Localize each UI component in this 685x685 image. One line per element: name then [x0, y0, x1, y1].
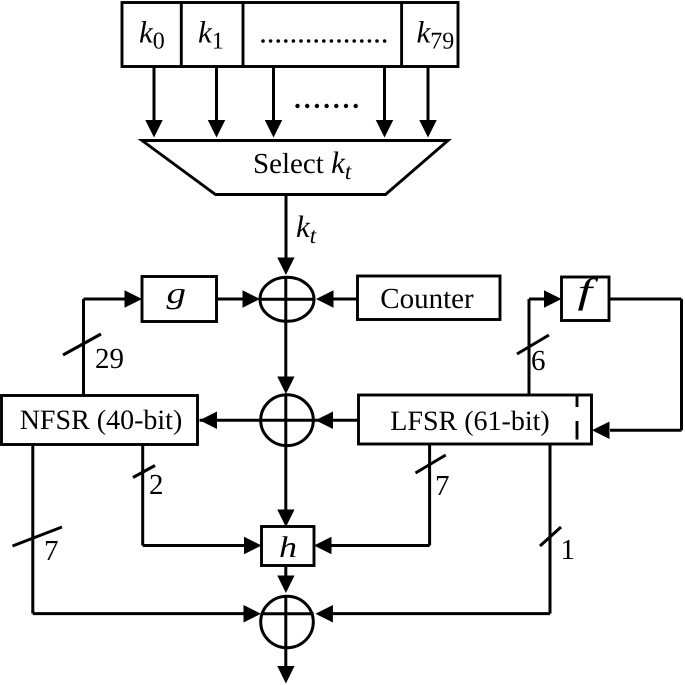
svg-text:2: 2: [149, 469, 164, 501]
svg-text:6: 6: [531, 345, 546, 377]
svg-text:7: 7: [435, 470, 450, 502]
svg-text:NFSR (40-bit): NFSR (40-bit): [20, 405, 183, 436]
svg-text:g: g: [167, 277, 187, 310]
svg-text:29: 29: [95, 343, 124, 375]
svg-text:Counter: Counter: [380, 283, 474, 315]
svg-text:7: 7: [44, 535, 59, 567]
svg-text:h: h: [279, 531, 297, 564]
svg-text:LFSR (61-bit): LFSR (61-bit): [390, 406, 549, 437]
svg-text:1: 1: [561, 534, 576, 566]
svg-text:Select kt: Select kt: [253, 145, 352, 184]
